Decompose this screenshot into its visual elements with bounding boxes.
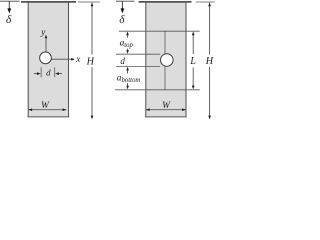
- right plate fill: [146, 2, 186, 117]
- a_top dimension arrows: [127, 35, 129, 38]
- svg-text:W: W: [41, 101, 50, 111]
- x axis: [51, 58, 72, 60]
- L dimension: [192, 35, 194, 54]
- svg-text:H: H: [86, 56, 95, 67]
- left plate top edge: [21, 1, 76, 3]
- y axis: [45, 38, 47, 52]
- H dimension right: [209, 3, 211, 55]
- H extension line left top: [78, 1, 100, 3]
- svg-text:x: x: [75, 54, 80, 64]
- left plate right edge: [68, 2, 70, 117]
- section line bottom: [115, 89, 200, 91]
- d tick right: [54, 67, 56, 77]
- right plate top edge: [139, 1, 192, 3]
- d arrow left: [34, 73, 38, 75]
- delta arrow right: [121, 1, 123, 9]
- right plate right edge: [185, 2, 187, 117]
- delta arrow left: [8, 1, 10, 9]
- a_bottom dimension arrows: [127, 70, 129, 73]
- left plate fill: [28, 2, 68, 117]
- hole left: [40, 52, 52, 64]
- d arrow right: [59, 73, 63, 75]
- svg-text:W: W: [162, 101, 171, 111]
- W dimension left: [29, 109, 67, 111]
- right plate bottom edge: [145, 116, 186, 118]
- delta reference line left: [0, 0, 20, 2]
- svg-text:L: L: [189, 56, 196, 67]
- svg-text:δ: δ: [6, 14, 12, 26]
- H dimension left: [91, 3, 93, 55]
- hole centerline upper: [164, 31, 166, 54]
- svg-text:δ: δ: [119, 14, 125, 26]
- svg-text:d: d: [46, 68, 51, 78]
- svg-text:H: H: [205, 56, 214, 67]
- left plate bottom edge: [28, 116, 70, 118]
- right plate left edge: [145, 2, 147, 117]
- svg-text:d: d: [120, 56, 125, 66]
- section line top: [119, 30, 200, 32]
- svg-text:y: y: [40, 27, 45, 37]
- W dimension right: [146, 109, 186, 111]
- delta reference line right: [116, 0, 135, 2]
- H extension line right top: [196, 1, 215, 3]
- hole bottom extension line: [116, 66, 160, 68]
- hole centerline lower: [164, 66, 166, 90]
- d tick left: [40, 67, 42, 77]
- hole top extension line: [116, 53, 160, 55]
- hole right: [161, 54, 174, 67]
- left plate left edge: [27, 2, 29, 117]
